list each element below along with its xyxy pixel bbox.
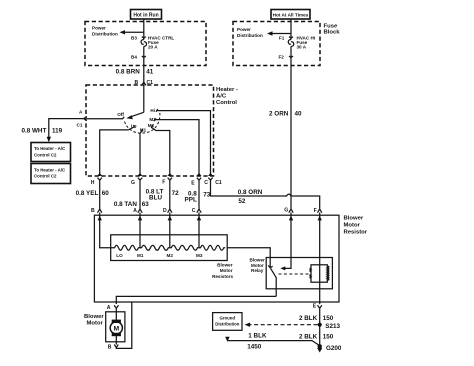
label Hot At All Times — [271, 10, 310, 20]
svg-text:0.8 ORN: 0.8 ORN — [238, 189, 263, 196]
svg-text:Hot At All Times: Hot At All Times — [273, 13, 309, 18]
svg-text:Control C2: Control C2 — [34, 174, 57, 179]
svg-text:2 BLK: 2 BLK — [299, 315, 318, 322]
svg-text:To Heater - A/C: To Heater - A/C — [34, 146, 66, 151]
resistor element M1-M2 — [140, 245, 170, 250]
ground loop wire from motor B — [116, 302, 132, 348]
svg-text:Hot in Run: Hot in Run — [133, 13, 158, 19]
svg-text:C1: C1 — [147, 80, 154, 86]
wire F to connector D — [169, 181, 171, 209]
svg-text:30 A: 30 A — [297, 45, 307, 50]
terminal B3 — [131, 35, 146, 40]
relay coil — [310, 265, 329, 282]
fuse value label — [148, 35, 174, 49]
svg-text:73: 73 — [203, 192, 211, 199]
svg-text:Resistors: Resistors — [212, 274, 233, 279]
svg-text:BLU: BLU — [149, 194, 162, 201]
wire label 2 BLK 150 (lower) — [299, 333, 334, 340]
wire H to connector B — [99, 181, 101, 209]
svg-text:M: M — [113, 325, 119, 332]
wire label 0.8 YEL 60 — [76, 190, 110, 197]
wire label 0.8 BRN 41 — [116, 69, 154, 76]
fuse HVAC HI 30A — [288, 40, 294, 47]
wire label 0.8 LT BLU 72 — [146, 189, 180, 202]
ground G200 — [317, 344, 342, 352]
svg-text:Motor: Motor — [87, 321, 104, 327]
svg-text:Relay: Relay — [251, 268, 264, 273]
svg-text:Resistor: Resistor — [344, 230, 368, 236]
svg-text:Hi: Hi — [150, 108, 155, 113]
svg-text:Motor: Motor — [220, 268, 233, 273]
pin arrow A into box — [138, 213, 142, 221]
svg-text:60: 60 — [102, 190, 110, 197]
svg-text:Blower: Blower — [344, 216, 364, 222]
svg-text:G200: G200 — [326, 345, 342, 352]
wire E to connector C — [198, 181, 200, 209]
svg-text:2 BLK: 2 BLK — [299, 333, 318, 340]
contact M2 — [148, 123, 155, 128]
svg-text:F: F — [314, 208, 317, 214]
svg-text:Distribution: Distribution — [92, 32, 118, 37]
switch feed wire from B — [143, 85, 145, 112]
svg-text:Blower: Blower — [84, 314, 104, 320]
blower motor resistor outer box — [94, 215, 339, 302]
svg-text:0.8 YEL: 0.8 YEL — [76, 190, 99, 197]
svg-text:Power: Power — [237, 27, 251, 32]
svg-text:H: H — [91, 180, 95, 186]
terminal B4 — [131, 54, 146, 59]
svg-text:M1: M1 — [137, 253, 144, 258]
fuse HVAC CTRL 20A — [141, 40, 147, 47]
terminal F1 — [279, 35, 293, 40]
svg-text:0.8 BRN: 0.8 BRN — [116, 69, 141, 76]
svg-text:52: 52 — [238, 198, 246, 205]
wire M2 to pin F — [152, 128, 170, 176]
wire M1 to pin G — [140, 131, 142, 176]
svg-text:Motor: Motor — [344, 223, 361, 229]
pin arrow B into box — [98, 213, 102, 221]
wire label 0.8 ORN 52 — [238, 189, 263, 205]
fuse value label — [297, 35, 316, 49]
svg-text:A: A — [133, 208, 137, 214]
svg-text:C1: C1 — [77, 123, 83, 128]
svg-text:Ground: Ground — [220, 315, 236, 320]
pin H — [91, 173, 103, 186]
svg-text:B3: B3 — [131, 35, 137, 40]
svg-text:G: G — [131, 180, 135, 186]
svg-text:M2: M2 — [167, 253, 174, 258]
svg-text:2 ORN: 2 ORN — [269, 110, 289, 117]
wire C down to M3 tap — [198, 219, 200, 248]
svg-text:A/C: A/C — [216, 94, 227, 100]
connector D — [163, 208, 172, 214]
svg-text:119: 119 — [52, 127, 63, 134]
wire G down to relay contact — [282, 219, 291, 268]
heater A/C control name — [216, 87, 238, 106]
svg-text:C: C — [192, 208, 196, 214]
wire Hi to pin C — [157, 111, 210, 176]
pin arrow F into box — [318, 213, 322, 221]
wire M3 to pin E — [155, 120, 199, 176]
resistor element LO-M1 — [113, 245, 140, 250]
svg-text:C: C — [204, 180, 208, 186]
pin arrow G into box — [289, 213, 293, 221]
svg-text:41: 41 — [146, 69, 154, 76]
pin B C1 (top) — [135, 80, 154, 86]
pin G — [131, 173, 143, 186]
fuse block dashed box (right) — [233, 22, 320, 66]
heater A/C control dashed box — [86, 85, 214, 176]
wire label 1 BLK 1450 — [247, 332, 267, 350]
resistor pack box — [111, 235, 228, 261]
svg-text:1450: 1450 — [247, 343, 262, 350]
svg-text:D: D — [163, 208, 167, 214]
svg-text:63: 63 — [142, 201, 150, 208]
wire D down to M2 tap — [169, 219, 171, 248]
motor upper brush — [112, 320, 121, 323]
blower motor name — [84, 314, 104, 327]
svg-text:B4: B4 — [131, 54, 137, 59]
wire label 0.8 PPL 73 — [185, 191, 211, 204]
svg-text:Distribution: Distribution — [237, 33, 263, 38]
fuse block dashed box (left) — [85, 22, 206, 66]
svg-text:B: B — [91, 208, 95, 214]
wire 1 BLK 1450 — [225, 337, 320, 346]
motor lower brush — [112, 333, 121, 336]
switch contact arc (dashed) — [125, 113, 160, 134]
svg-text:E: E — [313, 304, 317, 310]
wire from Hot At All Times down through fuse — [290, 19, 292, 196]
wire A to Off contact — [87, 117, 124, 119]
arrowhead G contact — [280, 266, 285, 270]
terminal F2 — [279, 54, 294, 59]
svg-text:1 BLK: 1 BLK — [248, 332, 267, 339]
svg-text:S213: S213 — [325, 323, 340, 330]
arrow to power distribution (right) — [267, 31, 291, 35]
dashed wire to ground distribution — [245, 323, 318, 327]
contact Hi — [150, 108, 157, 113]
fuse block name — [324, 24, 341, 36]
svg-text:PPL: PPL — [185, 196, 197, 203]
contact M3 — [149, 117, 156, 122]
svg-text:C1: C1 — [215, 180, 222, 186]
wire F down to relay coil — [319, 219, 321, 282]
svg-text:F: F — [162, 180, 165, 186]
wire into motor box — [115, 308, 117, 321]
svg-text:E: E — [191, 181, 195, 187]
svg-text:Distribution: Distribution — [215, 321, 239, 326]
wire label 0.8 WHT 119 — [21, 127, 62, 134]
contact M1 — [140, 128, 147, 133]
svg-text:150: 150 — [323, 333, 334, 340]
svg-text:B: B — [135, 80, 139, 86]
wire B down to LO tap — [100, 219, 113, 248]
resistor element M3-out — [199, 245, 225, 250]
pin arrow D into box — [168, 213, 172, 221]
pin E — [191, 173, 201, 187]
wire from Hot in Run down through fuse — [143, 19, 145, 84]
blower motor resistor name — [344, 216, 368, 236]
reference box To Heater A/C Control C2 (1) — [31, 143, 71, 162]
blower motor relay name — [250, 258, 266, 274]
blower motor relay box — [266, 258, 332, 289]
connector A — [133, 208, 142, 214]
wire motor to pin B — [115, 336, 117, 345]
splice S213 — [318, 323, 341, 331]
svg-text:F2: F2 — [279, 54, 285, 59]
svg-text:Control C2: Control C2 — [34, 152, 57, 157]
svg-text:150: 150 — [323, 315, 334, 322]
wire E down to S213 — [319, 309, 321, 347]
svg-text:0.8 WHT: 0.8 WHT — [21, 127, 46, 134]
svg-text:M3: M3 — [196, 253, 203, 258]
ground distribution box — [213, 313, 242, 331]
reference box To Heater A/C Control C2 (2) — [31, 164, 71, 184]
svg-text:Block: Block — [324, 30, 341, 36]
svg-text:Blower: Blower — [217, 262, 233, 267]
wire C1 to junction (0.8 ORN) — [211, 181, 320, 209]
svg-text:72: 72 — [172, 190, 180, 197]
wire G to connector A — [139, 181, 141, 209]
pin C C1 — [204, 173, 222, 186]
connector B — [91, 208, 102, 214]
resistor element M2-M3 — [170, 245, 199, 250]
svg-text:To Heater - A/C: To Heater - A/C — [34, 167, 66, 172]
switch arm (to Off) — [126, 112, 144, 119]
wire coil to ground rail — [319, 282, 321, 304]
connector C — [192, 208, 202, 214]
arrow to power distribution — [120, 30, 144, 34]
motor feed rail from relay — [116, 296, 276, 304]
wire Lo to pin H — [100, 127, 134, 176]
pin E connector — [313, 304, 322, 310]
relay coupling dashed — [279, 273, 311, 275]
pin A C1 (left) — [77, 110, 87, 128]
blower motor box — [106, 312, 125, 342]
pin F — [162, 173, 172, 186]
pin arrow C into box — [197, 213, 201, 221]
relay contact tick (resistor side) — [268, 265, 272, 267]
wire A external to 0.8 WHT — [49, 119, 85, 139]
arrow into To-Heater box — [47, 137, 51, 142]
svg-text:20 A: 20 A — [148, 45, 158, 50]
svg-text:Control: Control — [216, 100, 237, 106]
connector G — [284, 208, 293, 214]
wire resistor output to relay — [227, 248, 270, 267]
svg-text:Off: Off — [117, 112, 124, 117]
svg-text:B: B — [108, 345, 112, 351]
wire label 2 BLK 150 (upper) — [299, 315, 334, 322]
label Hot in Run — [131, 10, 162, 20]
svg-text:A: A — [107, 305, 111, 311]
wire label 2 ORN 40 — [269, 110, 302, 117]
svg-text:LO: LO — [116, 253, 123, 258]
resistor pack name — [212, 262, 233, 279]
wire A down to M1 tap — [139, 219, 141, 248]
contact Lo — [131, 123, 137, 128]
wire label 0.8 TAN 63 — [114, 201, 149, 208]
svg-text:40: 40 — [295, 110, 303, 117]
svg-text:F1: F1 — [279, 35, 285, 40]
motor circle M — [110, 322, 122, 334]
connector F — [314, 208, 322, 214]
svg-text:G: G — [284, 208, 288, 214]
pin A motor connector — [107, 305, 119, 311]
svg-text:Power: Power — [92, 26, 106, 31]
svg-text:Blower: Blower — [250, 258, 266, 263]
svg-text:Heater -: Heater - — [216, 87, 238, 93]
pin B motor connector — [108, 345, 119, 351]
relay armature — [271, 268, 277, 296]
junction 2 ORN to G branch — [290, 196, 292, 209]
